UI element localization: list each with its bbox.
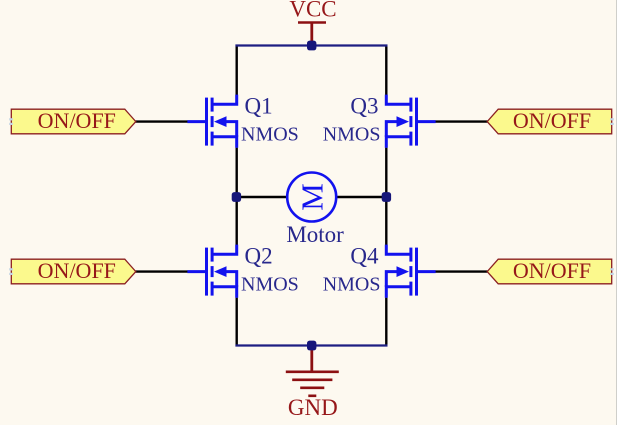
- wire top rail: [235, 44, 387, 46]
- port anchor marks right y=121.6: [610, 118, 614, 125]
- wire Q2 source to bottom rail: [235, 298, 237, 346]
- wire Q4 source to bottom rail: [385, 298, 387, 346]
- transistor Q2 NMOS symbol: [187, 245, 236, 298]
- power port VCC symbol: [298, 23, 326, 46]
- wire Q3 drain to top rail: [385, 46, 387, 96]
- port ON/OFF bottom-right: [487, 259, 612, 284]
- transistor Q4 NMOS symbol: [386, 245, 435, 298]
- svg-text:NMOS: NMOS: [241, 124, 299, 146]
- svg-text:ON/OFF: ON/OFF: [38, 108, 116, 133]
- wire bottom rail: [235, 344, 387, 346]
- junction node B: [382, 192, 391, 202]
- wire Q1 source to node A: [235, 148, 237, 197]
- wire left-top gate: [135, 120, 188, 122]
- port ON/OFF top-left: [11, 109, 136, 134]
- wire left-bottom gate: [135, 270, 188, 272]
- svg-text:ON/OFF: ON/OFF: [38, 258, 116, 283]
- power port GND symbol: [286, 346, 339, 396]
- port anchor marks right y=271.6: [610, 268, 614, 275]
- wire Q3 source to node B: [385, 148, 387, 197]
- junction at GND rail: [307, 341, 316, 351]
- wire Q4 drain to node B: [385, 197, 387, 245]
- svg-text:GND: GND: [288, 395, 338, 420]
- svg-text:Q1: Q1: [245, 93, 273, 118]
- wire motor to node B: [337, 196, 387, 198]
- port ON/OFF bottom-left: [11, 259, 136, 284]
- junction at VCC rail: [307, 41, 316, 51]
- port ON/OFF top-right: [487, 109, 612, 134]
- svg-text:NMOS: NMOS: [323, 124, 381, 146]
- wire right-bottom gate: [435, 270, 488, 272]
- svg-text:VCC: VCC: [289, 0, 336, 21]
- transistor Q1 NMOS symbol: [187, 95, 236, 148]
- svg-text:NMOS: NMOS: [241, 274, 299, 296]
- svg-text:NMOS: NMOS: [323, 274, 381, 296]
- svg-text:M: M: [295, 183, 330, 211]
- wire Q1 drain to top rail: [235, 46, 237, 96]
- svg-text:Q4: Q4: [350, 243, 379, 268]
- port anchor marks left y=121.6: [9, 118, 13, 125]
- wire Q2 drain to node A: [235, 197, 237, 245]
- svg-text:Motor: Motor: [286, 222, 344, 247]
- svg-text:ON/OFF: ON/OFF: [513, 258, 591, 283]
- svg-text:Q2: Q2: [245, 243, 273, 268]
- motor M1 circle: [287, 173, 336, 222]
- junction node A: [232, 192, 241, 202]
- port anchor marks left y=271.6: [9, 268, 13, 275]
- svg-text:Q3: Q3: [350, 93, 378, 118]
- transistor Q3 NMOS symbol: [386, 95, 435, 148]
- wire right-top gate: [435, 120, 488, 122]
- wire node A to motor: [237, 196, 288, 198]
- svg-text:ON/OFF: ON/OFF: [513, 108, 591, 133]
